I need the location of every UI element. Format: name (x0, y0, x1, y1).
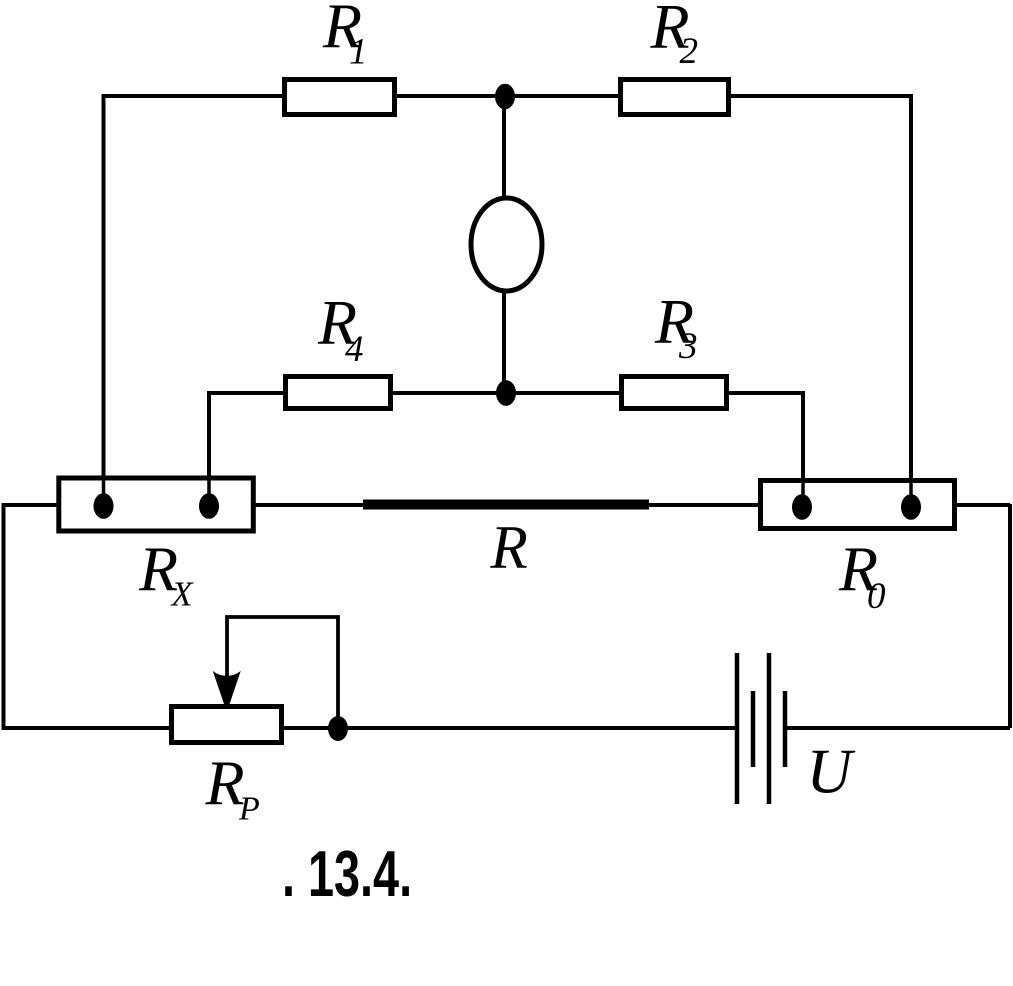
svg-text:1: 1 (349, 32, 368, 73)
svg-text:0: 0 (867, 576, 886, 617)
node RX terminal 1 (94, 493, 114, 519)
slide wire R (thick bar) (363, 500, 649, 510)
wire bottom left to battery (2, 726, 738, 730)
battery U plate short 2 (783, 691, 788, 767)
wire second row left drop into Rx (207, 391, 211, 506)
wire third row horizontal (2, 503, 1010, 507)
svg-text:X: X (170, 576, 195, 614)
node top junction (495, 84, 515, 110)
terminal block RX (59, 478, 254, 531)
node RX terminal 2 (199, 493, 219, 519)
potentiometer RP body (172, 707, 282, 743)
svg-text:3: 3 (678, 326, 698, 367)
node middle junction (496, 380, 516, 406)
wire galvanometer vertical (502, 96, 506, 393)
node R0 terminal 2 (901, 494, 921, 520)
node R0 terminal 1 (792, 494, 812, 520)
svg-text:. 13.4.: . 13.4. (282, 839, 412, 911)
wire second row horizontal (209, 391, 803, 395)
wire top horizontal (102, 94, 912, 98)
wire stub into RX left dot (102, 478, 106, 506)
wire stub into R0 left dot (801, 479, 805, 507)
battery U plate long right (767, 653, 772, 804)
svg-text:R: R (490, 515, 528, 582)
wire stub into R0 right dot (909, 479, 913, 507)
wiper arrow head (213, 671, 241, 705)
resistor R1 (285, 80, 395, 115)
wire left vertical from top row down to Rx (102, 94, 106, 506)
wire battery to right corner (785, 726, 1010, 730)
battery U plate long left (735, 653, 740, 804)
wire far right vertical (1008, 504, 1012, 728)
wire stub into RX right dot (207, 478, 211, 506)
wire second row right drop into R0 (801, 391, 805, 507)
resistor R3 (622, 377, 727, 409)
wire far left vertical (2, 503, 6, 728)
terminal block R0 (761, 481, 955, 529)
svg-text:U: U (807, 737, 856, 807)
svg-text:P: P (238, 791, 260, 828)
battery U plate short 1 (751, 691, 756, 767)
svg-text:4: 4 (345, 329, 364, 370)
svg-text:2: 2 (680, 31, 699, 72)
wire wiper loop (227, 617, 338, 728)
resistor R4 (286, 377, 391, 409)
node bottom junction (328, 716, 348, 741)
wire right vertical from top row down to R0 (909, 94, 913, 507)
galvanometer (471, 198, 542, 291)
resistor R2 (621, 80, 729, 115)
